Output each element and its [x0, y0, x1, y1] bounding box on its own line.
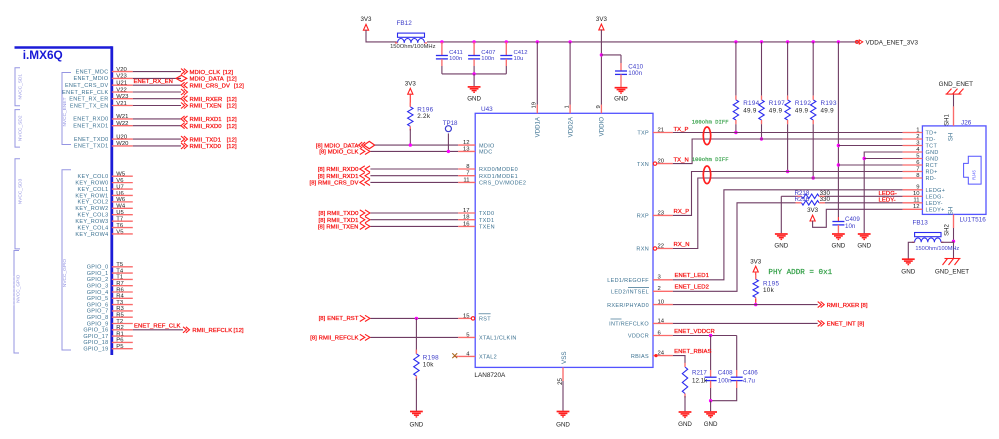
- svg-text:[8] RMII_TXD1: [8] RMII_TXD1: [319, 218, 359, 224]
- svg-text:R197: R197: [769, 100, 785, 107]
- svg-text:ENET_REF_CLK: ENET_REF_CLK: [134, 324, 180, 330]
- svg-text:C412: C412: [514, 50, 528, 56]
- svg-text:ENET_LED1: ENET_LED1: [675, 273, 709, 279]
- svg-text:LED2/INTSEL: LED2/INTSEL: [611, 290, 649, 296]
- svg-text:RST: RST: [479, 317, 491, 323]
- svg-text:RX_P: RX_P: [674, 209, 690, 215]
- svg-text:GPIO_16: GPIO_16: [83, 328, 108, 334]
- svg-text:GPIO_6: GPIO_6: [87, 302, 109, 308]
- svg-text:12: 12: [463, 140, 470, 146]
- svg-text:SH1: SH1: [945, 114, 951, 126]
- svg-text:ENET_RXD1: ENET_RXD1: [73, 124, 108, 130]
- svg-text:11: 11: [463, 177, 469, 183]
- svg-text:NVCC_ENET: NVCC_ENET: [62, 97, 68, 126]
- svg-text:VDD1A: VDD1A: [535, 116, 542, 137]
- svg-text:10: 10: [913, 191, 920, 197]
- svg-text:ENET_LED2: ENET_LED2: [675, 285, 709, 291]
- svg-text:15: 15: [463, 313, 470, 319]
- svg-text:KEY_ROW4: KEY_ROW4: [75, 232, 108, 238]
- svg-text:GND: GND: [901, 269, 915, 276]
- svg-text:13: 13: [463, 146, 470, 152]
- svg-text:150Ohm/100MHz: 150Ohm/100MHz: [915, 246, 959, 252]
- svg-text:J26: J26: [961, 120, 972, 127]
- svg-text:ENET_TXD0: ENET_TXD0: [74, 137, 109, 143]
- svg-text:RD+: RD+: [926, 170, 938, 176]
- svg-text:VDDIO: VDDIO: [599, 117, 606, 137]
- svg-text:R217: R217: [692, 369, 707, 376]
- svg-text:XTAL1/CLKIN: XTAL1/CLKIN: [479, 336, 517, 342]
- svg-text:20: 20: [658, 159, 665, 165]
- svg-text:10k: 10k: [423, 362, 435, 369]
- svg-text:100n: 100n: [718, 377, 732, 384]
- svg-text:14: 14: [658, 318, 665, 324]
- svg-text:TXP: TXP: [637, 131, 649, 137]
- svg-text:GND: GND: [410, 422, 424, 429]
- svg-text:[8]: [8]: [861, 303, 868, 309]
- svg-text:[12]: [12]: [227, 117, 237, 123]
- svg-text:24: 24: [658, 351, 665, 357]
- svg-text:GPIO_5: GPIO_5: [87, 296, 109, 302]
- svg-text:LAN8720A: LAN8720A: [474, 372, 506, 379]
- svg-text:VDDCR: VDDCR: [628, 334, 649, 340]
- svg-text:49.9: 49.9: [743, 107, 757, 114]
- svg-text:NVCC_SD2: NVCC_SD2: [18, 115, 24, 141]
- svg-text:CRS_DV/MODE2: CRS_DV/MODE2: [479, 181, 526, 187]
- svg-text:1: 1: [565, 105, 571, 108]
- svg-text:TX_N: TX_N: [674, 157, 689, 163]
- svg-text:SH2: SH2: [945, 224, 951, 236]
- svg-text:VDDA_ENET_3V3: VDDA_ENET_3V3: [866, 39, 919, 46]
- svg-text:LEDG+: LEDG+: [926, 188, 946, 194]
- svg-text:NVCC_GPIO: NVCC_GPIO: [16, 274, 22, 303]
- svg-text:KEY_COL3: KEY_COL3: [78, 213, 109, 219]
- svg-text:MDIO_DATA: MDIO_DATA: [190, 77, 224, 83]
- svg-text:25: 25: [557, 377, 564, 384]
- svg-text:LEDY-: LEDY-: [879, 198, 896, 204]
- svg-text:LEDY+: LEDY+: [926, 208, 945, 214]
- svg-text:23: 23: [658, 210, 665, 216]
- svg-text:[12]: [12]: [234, 83, 244, 89]
- svg-text:TCT: TCT: [926, 144, 938, 150]
- svg-text:[8] RMII_RXD0: [8] RMII_RXD0: [318, 167, 359, 173]
- svg-text:TXD0: TXD0: [479, 211, 494, 217]
- svg-text:49.9: 49.9: [795, 107, 809, 114]
- svg-text:[8] MDIO_DATA: [8] MDIO_DATA: [316, 143, 359, 149]
- svg-text:7: 7: [466, 171, 469, 177]
- svg-text:GND: GND: [857, 242, 871, 249]
- svg-text:100n: 100n: [449, 56, 462, 62]
- svg-text:R198: R198: [423, 355, 439, 362]
- svg-text:2: 2: [916, 134, 919, 140]
- svg-text:NVCC_SD1: NVCC_SD1: [18, 74, 24, 100]
- svg-text:RJ45: RJ45: [972, 169, 977, 179]
- svg-text:100n: 100n: [481, 56, 494, 62]
- svg-text:KEY_COL0: KEY_COL0: [78, 174, 109, 180]
- svg-text:R216: R216: [795, 196, 810, 203]
- svg-text:ENET_VDDCR: ENET_VDDCR: [674, 329, 715, 335]
- svg-text:RXP: RXP: [637, 214, 649, 220]
- svg-text:ENET_MDC: ENET_MDC: [76, 69, 109, 75]
- svg-text:GPIO_8: GPIO_8: [87, 315, 109, 321]
- svg-text:3V3: 3V3: [807, 207, 819, 214]
- svg-text:[8] RMII_TXD0: [8] RMII_TXD0: [319, 211, 360, 217]
- svg-text:ENET_RX_EN: ENET_RX_EN: [134, 79, 173, 85]
- svg-text:[8]: [8]: [858, 322, 865, 328]
- svg-text:SH: SH: [948, 207, 954, 215]
- svg-text:PHY ADDR = 0x1: PHY ADDR = 0x1: [768, 269, 832, 277]
- svg-text:RXN: RXN: [636, 247, 649, 253]
- svg-text:RX_N: RX_N: [674, 242, 690, 248]
- svg-text:INT/REFCLKO: INT/REFCLKO: [609, 322, 649, 328]
- svg-text:9: 9: [916, 185, 919, 191]
- svg-text:ENET_MDIO: ENET_MDIO: [74, 76, 109, 82]
- svg-text:3V3: 3V3: [405, 81, 417, 88]
- svg-text:GND_ENET: GND_ENET: [939, 81, 973, 88]
- svg-text:ENET_REF_CLK: ENET_REF_CLK: [62, 90, 108, 96]
- svg-text:21: 21: [658, 127, 665, 133]
- svg-text:MDIO: MDIO: [479, 143, 495, 149]
- svg-text:KEY_COL1: KEY_COL1: [78, 187, 109, 193]
- svg-text:GND: GND: [704, 421, 718, 428]
- svg-text:KEY_ROW2: KEY_ROW2: [75, 206, 108, 212]
- svg-text:XTAL2: XTAL2: [479, 355, 497, 361]
- svg-text:[8] RMII_CRS_DV: [8] RMII_CRS_DV: [310, 181, 359, 187]
- svg-text:[12]: [12]: [227, 124, 237, 130]
- svg-text:ENET_RXD0: ENET_RXD0: [73, 117, 108, 123]
- svg-text:1: 1: [916, 127, 919, 133]
- svg-text:KEY_COL2: KEY_COL2: [78, 200, 109, 206]
- svg-text:[12]: [12]: [234, 328, 244, 334]
- svg-text:GND: GND: [614, 96, 628, 103]
- svg-text:GPIO_0: GPIO_0: [87, 265, 109, 271]
- svg-text:100ohm DIFF: 100ohm DIFF: [692, 119, 729, 126]
- svg-text:GPIO_19: GPIO_19: [83, 347, 108, 353]
- svg-text:R193: R193: [821, 100, 837, 107]
- svg-text:C406: C406: [743, 369, 758, 376]
- svg-text:19: 19: [532, 102, 538, 108]
- svg-text:10: 10: [658, 300, 665, 306]
- svg-text:[12]: [12]: [227, 137, 237, 143]
- svg-text:[12]: [12]: [227, 97, 237, 103]
- svg-text:RMII_TXD1: RMII_TXD1: [190, 137, 222, 143]
- svg-text:ENET_TX_EN: ENET_TX_EN: [70, 103, 109, 109]
- svg-text:RD-: RD-: [926, 176, 937, 182]
- svg-text:[8] MDIO_CLK: [8] MDIO_CLK: [319, 150, 358, 156]
- svg-text:GND_ENET: GND_ENET: [935, 269, 969, 276]
- svg-text:TD+: TD+: [926, 131, 938, 137]
- svg-text:LU1T516: LU1T516: [960, 217, 987, 224]
- svg-text:RMII_TXD0: RMII_TXD0: [190, 144, 222, 150]
- svg-text:ENET_INT: ENET_INT: [827, 322, 856, 328]
- svg-text:[8] RMII_TXEN: [8] RMII_TXEN: [318, 225, 359, 231]
- svg-text:100ohm DIFF: 100ohm DIFF: [692, 156, 729, 163]
- svg-text:GPIO_3: GPIO_3: [87, 284, 109, 290]
- svg-text:[8] RMII_RXD1: [8] RMII_RXD1: [318, 174, 359, 180]
- svg-text:RXER/PHYAD0: RXER/PHYAD0: [607, 303, 649, 309]
- svg-text:11: 11: [913, 198, 919, 204]
- svg-text:LEDG-: LEDG-: [879, 191, 897, 197]
- svg-text:RMII_REFCLK: RMII_REFCLK: [192, 328, 232, 334]
- svg-text:17: 17: [463, 208, 470, 214]
- svg-text:C407: C407: [481, 50, 495, 56]
- svg-text:RMII_RXD0: RMII_RXD0: [190, 124, 223, 130]
- svg-text:10k: 10k: [763, 287, 775, 294]
- svg-text:2.2k: 2.2k: [417, 113, 431, 120]
- svg-text:NVCC_GPIO: NVCC_GPIO: [62, 259, 68, 288]
- svg-text:RMII_RXD1: RMII_RXD1: [190, 117, 222, 123]
- svg-text:3V3: 3V3: [750, 258, 762, 265]
- svg-text:C411: C411: [449, 50, 463, 56]
- svg-text:KEY_ROW3: KEY_ROW3: [75, 219, 108, 225]
- svg-text:3V3: 3V3: [596, 16, 608, 23]
- svg-text:150Ohm/100MHz: 150Ohm/100MHz: [390, 44, 436, 50]
- svg-text:FB12: FB12: [397, 20, 413, 27]
- svg-text:RXD1/MODE1: RXD1/MODE1: [479, 174, 518, 180]
- svg-text:RMII_TXEN: RMII_TXEN: [190, 104, 222, 110]
- svg-text:GND: GND: [467, 96, 481, 103]
- svg-text:GPIO_18: GPIO_18: [83, 340, 108, 346]
- svg-text:[12]: [12]: [227, 104, 237, 110]
- svg-text:GND: GND: [678, 421, 692, 428]
- svg-text:[12]: [12]: [223, 70, 233, 76]
- svg-text:RXD0/MODE0: RXD0/MODE0: [479, 167, 518, 173]
- svg-text:18: 18: [463, 215, 470, 221]
- svg-text:KEY_COL4: KEY_COL4: [78, 225, 109, 231]
- svg-text:GPIO_4: GPIO_4: [87, 290, 109, 296]
- svg-text:LED1/REGOFF: LED1/REGOFF: [607, 278, 649, 284]
- svg-text:10u: 10u: [514, 56, 524, 62]
- svg-text:330: 330: [820, 196, 831, 203]
- svg-text:LEDG-: LEDG-: [926, 195, 944, 201]
- svg-text:RMII_RXER: RMII_RXER: [190, 97, 223, 103]
- svg-text:C408: C408: [718, 369, 733, 376]
- svg-text:GND: GND: [556, 422, 570, 429]
- svg-text:VSS: VSS: [561, 351, 568, 364]
- svg-text:TD-: TD-: [926, 137, 936, 143]
- svg-text:NVCC_SD3: NVCC_SD3: [18, 178, 24, 204]
- svg-text:ENET_RX_ER: ENET_RX_ER: [69, 97, 108, 103]
- svg-text:U43: U43: [481, 106, 493, 113]
- svg-text:GND: GND: [774, 242, 788, 249]
- svg-text:49.9: 49.9: [769, 107, 783, 114]
- svg-text:LEDY-: LEDY-: [926, 201, 943, 207]
- svg-text:GPIO_17: GPIO_17: [83, 334, 108, 340]
- svg-text:GPIO_2: GPIO_2: [87, 277, 109, 283]
- svg-text:12.1k: 12.1k: [692, 377, 708, 384]
- svg-text:TXEN: TXEN: [479, 225, 495, 231]
- svg-text:ENET_CRS_DV: ENET_CRS_DV: [65, 83, 109, 89]
- svg-text:R194: R194: [743, 100, 759, 107]
- svg-text:TXN: TXN: [637, 162, 649, 168]
- svg-text:FB13: FB13: [913, 220, 929, 227]
- svg-text:2: 2: [658, 286, 661, 292]
- svg-text:100n: 100n: [628, 70, 642, 77]
- svg-text:SH: SH: [948, 133, 954, 141]
- svg-text:TX_P: TX_P: [674, 127, 689, 133]
- svg-text:MDC: MDC: [479, 150, 493, 156]
- svg-text:TXD1: TXD1: [479, 218, 494, 224]
- svg-text:7: 7: [916, 166, 919, 172]
- svg-text:ENET_TXD1: ENET_TXD1: [74, 144, 109, 150]
- svg-text:GPIO_7: GPIO_7: [87, 309, 109, 315]
- svg-text:4.7u: 4.7u: [743, 377, 756, 384]
- svg-text:R192: R192: [795, 100, 811, 107]
- svg-text:ENET_RBIAS: ENET_RBIAS: [674, 349, 711, 355]
- svg-text:KEY_ROW1: KEY_ROW1: [75, 193, 108, 199]
- svg-text:[8] ENET_RST: [8] ENET_RST: [319, 316, 359, 322]
- svg-text:[12]: [12]: [227, 77, 237, 83]
- svg-text:12: 12: [913, 204, 920, 210]
- svg-text:[12]: [12]: [227, 144, 237, 150]
- svg-text:10n: 10n: [845, 223, 856, 230]
- svg-text:RBIAS: RBIAS: [631, 354, 649, 360]
- svg-text:9: 9: [596, 105, 602, 108]
- svg-text:GPIO_9: GPIO_9: [87, 321, 109, 327]
- svg-text:49.9: 49.9: [821, 107, 835, 114]
- svg-text:GND: GND: [926, 157, 939, 163]
- svg-text:GND: GND: [926, 150, 939, 156]
- svg-text:GPIO_1: GPIO_1: [87, 271, 109, 277]
- svg-text:VDD2A: VDD2A: [567, 116, 574, 137]
- svg-text:KEY_ROW0: KEY_ROW0: [75, 180, 108, 186]
- svg-text:22: 22: [658, 243, 665, 249]
- svg-text:GND: GND: [832, 242, 846, 249]
- svg-text:MDIO_CLK: MDIO_CLK: [190, 70, 221, 76]
- svg-text:[8] RMII_REFCLK: [8] RMII_REFCLK: [310, 336, 358, 342]
- svg-text:RCT: RCT: [926, 163, 939, 169]
- svg-text:RMII_CRS_DV: RMII_CRS_DV: [190, 83, 231, 89]
- svg-text:16: 16: [463, 221, 470, 227]
- svg-text:RMII_RXER: RMII_RXER: [827, 303, 860, 309]
- svg-text:3V3: 3V3: [360, 16, 372, 23]
- svg-text:i.MX6Q: i.MX6Q: [23, 48, 63, 62]
